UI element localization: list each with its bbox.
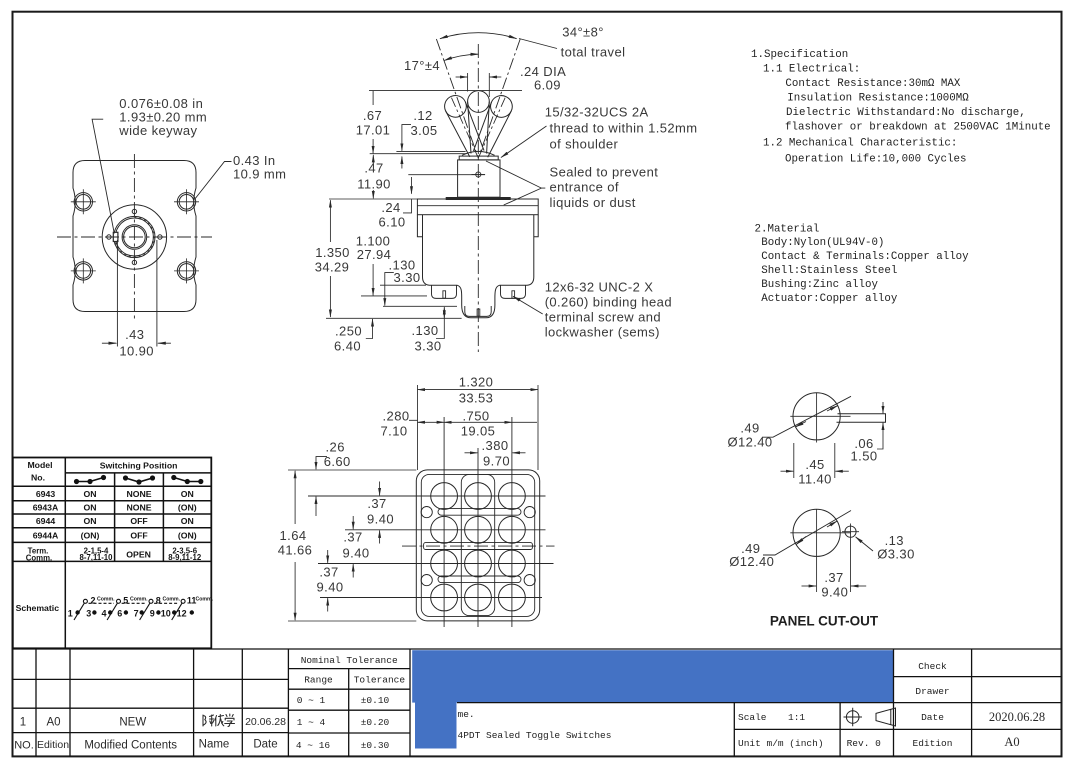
screw slots [443, 291, 446, 298]
lever top extension line [369, 90, 522, 92]
svg-text:(ON): (ON) [178, 530, 197, 540]
schematic 4PDT [74, 599, 185, 620]
svg-text:9.40: 9.40 [343, 546, 370, 561]
bushing top extension lines [370, 152, 467, 154]
svg-text:Nominal Tolerance: Nominal Tolerance [301, 655, 398, 666]
center screw washer [465, 306, 491, 316]
flange side tabs [417, 215, 538, 237]
dia leader bottom circle [763, 511, 851, 556]
svg-text:17°±4: 17°±4 [404, 58, 440, 73]
left section rows [13, 679, 289, 732]
svg-text:12: 12 [177, 608, 187, 618]
svg-text:1.350: 1.350 [315, 245, 350, 260]
svg-text:.37: .37 [367, 496, 386, 511]
body flange [417, 199, 538, 215]
svg-text:Date: Date [921, 712, 944, 723]
projection symbol [844, 708, 896, 726]
svg-text:1 ~ 4: 1 ~ 4 [297, 717, 326, 728]
svg-text:Comm.: Comm. [196, 596, 214, 602]
keyway slot [113, 232, 118, 241]
big blue rectangle [412, 650, 893, 702]
small blue rectangle [415, 697, 457, 749]
svg-text:7: 7 [134, 608, 139, 618]
svg-text:9.40: 9.40 [821, 585, 848, 600]
svg-text:4: 4 [101, 608, 106, 618]
svg-text:Name: Name [199, 739, 230, 751]
schematic contact dots [75, 610, 194, 614]
svg-text:1: 1 [20, 717, 26, 729]
svg-text:.47: .47 [364, 161, 383, 176]
svg-text:Comm.: Comm. [97, 596, 115, 602]
svg-text:Modified Contents: Modified Contents [84, 740, 177, 752]
side view vertical centerline [477, 44, 479, 352]
dim .43/10.90 arrows [102, 342, 117, 344]
dim .37 second [352, 516, 354, 529]
34 degree arc [440, 33, 517, 39]
svg-text:3: 3 [86, 608, 91, 618]
terminal row lines [308, 496, 554, 598]
table outer border [13, 458, 212, 649]
svg-text:2.Material: 2.Material [755, 223, 820, 235]
svg-text:0 ~ 1: 0 ~ 1 [297, 695, 326, 706]
svg-text:Date: Date [253, 739, 277, 751]
cutout bottom crosshairs [790, 509, 851, 592]
svg-text:ON: ON [83, 503, 96, 513]
svg-text:Drawer: Drawer [915, 686, 949, 697]
svg-text:Shell:Stainless Steel: Shell:Stainless Steel [761, 265, 897, 277]
svg-text:Edition: Edition [37, 739, 69, 751]
svg-text:1: 1 [68, 608, 73, 618]
svg-text:me.: me. [458, 709, 475, 720]
svg-text:Actuator:Copper alloy: Actuator:Copper alloy [761, 293, 898, 305]
dim .37/9.40 cutout [802, 585, 817, 587]
svg-text:Scale: Scale [738, 712, 767, 723]
svg-text:of shoulder: of shoulder [550, 137, 619, 152]
svg-text:9.70: 9.70 [483, 454, 510, 469]
svg-text:ON: ON [181, 516, 194, 526]
travel limit line right [478, 39, 520, 158]
svg-text:Ø12.40: Ø12.40 [727, 435, 772, 450]
svg-text:34.29: 34.29 [315, 260, 350, 275]
bottom view inner outline [421, 474, 534, 616]
leader terminal screw note [513, 296, 543, 314]
svg-text:.24: .24 [381, 200, 400, 215]
lever base arc [462, 151, 495, 155]
dim 1.64 extension lines [288, 470, 416, 621]
svg-text:Bushing:Zinc alloy: Bushing:Zinc alloy [761, 279, 878, 291]
svg-text:.49: .49 [740, 421, 759, 436]
svg-text:3.30: 3.30 [394, 270, 421, 285]
mounting hole bottom-right [177, 262, 195, 280]
svg-text:.12: .12 [413, 108, 432, 123]
flange top extension line [329, 198, 417, 200]
left section verticals [36, 649, 288, 756]
actuator hole circles [122, 225, 147, 250]
left screw washer [432, 286, 457, 299]
svg-text:entrance of: entrance of [550, 180, 619, 195]
svg-text:Rev. 0: Rev. 0 [847, 738, 882, 749]
body outline with base pockets [423, 215, 534, 318]
svg-text:NEW: NEW [119, 717, 146, 729]
svg-text:8-7,11-10: 8-7,11-10 [80, 553, 114, 562]
dim .130/3.30 lower [436, 307, 444, 339]
svg-text:Ø3.30: Ø3.30 [877, 547, 914, 562]
boss small circles N S W E [132, 209, 136, 213]
mounting hole top-left [74, 193, 92, 211]
svg-text:.37: .37 [343, 530, 362, 545]
dim .45/11.40 [794, 443, 835, 478]
leader thread note [501, 126, 547, 158]
svg-text:.45: .45 [805, 457, 824, 472]
svg-text:3.05: 3.05 [411, 123, 438, 138]
svg-text:20.06.28: 20.06.28 [245, 716, 286, 728]
svg-text:15/32-32UCS 2A: 15/32-32UCS 2A [545, 105, 649, 120]
svg-text:NO.: NO. [14, 740, 34, 752]
svg-text:Dielectric Withstandard:No dis: Dielectric Withstandard:No discharge, [786, 107, 1026, 119]
svg-text:.37: .37 [319, 565, 338, 580]
dim 1.64 [294, 471, 296, 524]
right screw washer [501, 286, 526, 299]
corner rivet holes [421, 506, 535, 585]
dim .280 [418, 421, 445, 423]
svg-text:wide keyway: wide keyway [118, 123, 197, 138]
pole 4 [181, 599, 185, 603]
svg-text:1.50: 1.50 [851, 449, 878, 464]
svg-text:1.1 Electrical:: 1.1 Electrical: [763, 64, 860, 76]
svg-text:OFF: OFF [130, 530, 147, 540]
svg-text:4PDT Sealed Toggle Switches: 4PDT Sealed Toggle Switches [458, 730, 612, 741]
svg-text:4 ~ 16: 4 ~ 16 [296, 740, 331, 751]
svg-text:6: 6 [117, 608, 122, 618]
mounting hole top-right [177, 193, 195, 211]
dim .12 bracket [402, 125, 411, 144]
toggle icon center [123, 475, 155, 484]
svg-text:.67: .67 [363, 108, 382, 123]
flange centerline horizontal [57, 236, 212, 238]
svg-text:6944A: 6944A [33, 530, 59, 540]
bushing washer band [446, 197, 511, 200]
mounting hole bottom-left [74, 262, 92, 280]
pole 1 [83, 599, 87, 603]
dim 1.350 [329, 200, 331, 242]
svg-text:1.2 Mechanical Characteristic:: 1.2 Mechanical Characteristic: [763, 138, 957, 150]
dim .750 [444, 421, 512, 423]
toggle icon ON-left [74, 475, 106, 484]
svg-text:Tolerance: Tolerance [354, 674, 406, 685]
pole 3 [149, 599, 153, 603]
svg-text:.380: .380 [482, 438, 509, 453]
dim .37 third [327, 550, 329, 563]
svg-text:total travel: total travel [561, 45, 626, 60]
bushing body [458, 160, 500, 197]
dim .24 extension lines [468, 73, 490, 97]
flange centerline vertical [133, 154, 135, 320]
travel limit line left [436, 39, 478, 158]
svg-text:1.64: 1.64 [280, 528, 307, 543]
washer extension line [408, 174, 485, 176]
drafter name CJK strokes [203, 714, 235, 727]
svg-text:Ø12.40: Ø12.40 [729, 554, 774, 569]
svg-text:ON: ON [83, 516, 96, 526]
svg-text:12x6-32 UNC-2 X: 12x6-32 UNC-2 X [545, 280, 654, 295]
seal point circle [476, 172, 481, 177]
total travel leader [519, 39, 557, 49]
svg-text:(ON): (ON) [81, 530, 100, 540]
svg-text:Sealed to prevent: Sealed to prevent [550, 165, 659, 180]
svg-text:3.30: 3.30 [415, 338, 442, 353]
dim .26/6.60 [316, 457, 327, 470]
pole 2 [117, 599, 121, 603]
svg-text:41.66: 41.66 [278, 543, 313, 558]
svg-text:Insulation Resistance:1000MΩ: Insulation Resistance:1000MΩ [787, 93, 969, 105]
dim .24/6.10 [411, 177, 413, 194]
svg-text:6943: 6943 [36, 489, 55, 499]
svg-text:Comm.: Comm. [130, 596, 148, 602]
svg-text:NONE: NONE [126, 489, 151, 499]
dim .250/6.40 [366, 319, 373, 339]
svg-text:Contact & Terminals:Copper all: Contact & Terminals:Copper alloy [761, 251, 969, 263]
leader sealed note [486, 161, 545, 205]
svg-text:.280: .280 [383, 409, 410, 424]
svg-text:OPEN: OPEN [126, 549, 151, 559]
dim .380 [465, 452, 478, 454]
mounting hole crosshairs [71, 189, 199, 283]
anti-rotation hole [845, 526, 856, 537]
svg-text:ON: ON [181, 489, 194, 499]
bottom view centerline [402, 545, 555, 547]
svg-text:.130: .130 [412, 323, 439, 338]
toggle icon ON-right [171, 475, 203, 484]
right rows [457, 677, 1061, 730]
svg-text:lockwasher (sems): lockwasher (sems) [545, 325, 660, 340]
dim .37 first [379, 482, 381, 496]
svg-text:27.94: 27.94 [357, 247, 392, 262]
thread hatch arc [114, 217, 154, 257]
svg-text:OFF: OFF [130, 516, 147, 526]
svg-text:34°±8°: 34°±8° [562, 25, 604, 40]
svg-text:.43: .43 [125, 327, 144, 342]
svg-text:±0.10: ±0.10 [361, 695, 390, 706]
svg-text:10: 10 [161, 608, 171, 618]
keyway slot [837, 414, 886, 422]
bushing thread ring [114, 216, 155, 257]
center boss outer circle [102, 205, 166, 269]
svg-text:Check: Check [918, 661, 947, 672]
svg-text:liquids or dust: liquids or dust [550, 195, 636, 210]
svg-text:8: 8 [156, 596, 161, 606]
svg-text:33.53: 33.53 [459, 391, 494, 406]
hole leader [195, 162, 232, 200]
svg-text:Edition: Edition [913, 738, 953, 749]
dim 1.320 extension lines [418, 385, 539, 470]
leader small hole [856, 537, 873, 551]
middle terminal strip [461, 474, 494, 615]
dim .24 arrows [456, 76, 468, 78]
bushing top plate [459, 156, 498, 160]
cutout bottom circle [793, 509, 840, 556]
svg-text:Body:Nylon(UL94V-0): Body:Nylon(UL94V-0) [761, 237, 884, 249]
svg-text:1.Specification: 1.Specification [751, 49, 848, 61]
middle verticals [734, 649, 971, 756]
center divider band [424, 543, 533, 550]
svg-text:9: 9 [150, 608, 155, 618]
17 degree arc [444, 54, 478, 60]
dim .67 line [372, 91, 374, 153]
svg-text:Operation Life:10,000 Cycles: Operation Life:10,000 Cycles [785, 154, 966, 166]
svg-text:8-9,11-12: 8-9,11-12 [168, 553, 202, 562]
svg-text:1.320: 1.320 [459, 375, 494, 390]
svg-text:19.05: 19.05 [461, 424, 496, 439]
svg-text:6944: 6944 [36, 516, 55, 526]
svg-text:.37: .37 [824, 570, 843, 585]
svg-text:Schematic: Schematic [16, 603, 60, 613]
svg-text:.750: .750 [463, 409, 490, 424]
lever right tilted position [469, 92, 515, 161]
svg-text:7.10: 7.10 [381, 424, 408, 439]
svg-text:terminal screw and: terminal screw and [545, 310, 661, 325]
svg-text:2020.06.28: 2020.06.28 [989, 710, 1045, 724]
svg-text:Comm.: Comm. [26, 553, 52, 562]
cutout top circle [793, 393, 840, 440]
table row lines [13, 473, 212, 562]
svg-text:PANEL CUT-OUT: PANEL CUT-OUT [770, 614, 879, 629]
divider bars [438, 509, 521, 516]
svg-text:5: 5 [123, 596, 128, 606]
svg-text:6.40: 6.40 [334, 339, 361, 354]
svg-text:.26: .26 [326, 440, 345, 455]
schematic terminal numbers [68, 596, 197, 619]
tolerance table [288, 649, 410, 756]
svg-text:17.01: 17.01 [356, 123, 391, 138]
svg-text:ON: ON [83, 489, 96, 499]
svg-text:Switching Position: Switching Position [100, 460, 178, 470]
terminal column lines [444, 417, 512, 627]
schematic Comm labels [97, 596, 214, 602]
svg-text:±0.30: ±0.30 [361, 740, 390, 751]
svg-text:9.40: 9.40 [317, 580, 344, 595]
svg-text:A0: A0 [1004, 735, 1019, 749]
dia leader top circle [762, 396, 851, 437]
svg-text:Contact Resistance:30mΩ MAX: Contact Resistance:30mΩ MAX [785, 78, 960, 90]
lever center position [468, 102, 490, 154]
svg-text:Unit m/m (inch): Unit m/m (inch) [738, 738, 824, 749]
pocket extension lines [326, 285, 462, 318]
svg-text:11.90: 11.90 [357, 177, 391, 192]
title block top line [13, 648, 1062, 650]
svg-text:A0: A0 [46, 717, 60, 729]
svg-text:(ON): (ON) [178, 503, 197, 513]
terminal screws 3x4 [431, 483, 526, 611]
cutout top crosshairs [790, 393, 850, 443]
svg-text:flashover or breakdown at 2500: flashover or breakdown at 2500VAC 1Minut… [785, 122, 1051, 134]
dim .47 [372, 155, 374, 164]
svg-text:±0.20: ±0.20 [361, 717, 390, 728]
dim .06/1.50 [882, 402, 884, 413]
svg-text:thread to within 1.52mm: thread to within 1.52mm [550, 121, 698, 136]
svg-text:9.40: 9.40 [367, 512, 394, 527]
svg-text:Range: Range [304, 674, 333, 685]
lever left tilted position [441, 92, 487, 161]
svg-text:11.40: 11.40 [798, 472, 832, 487]
svg-text:Model: Model [27, 460, 52, 470]
svg-text:2: 2 [90, 596, 95, 606]
svg-text:NONE: NONE [126, 503, 151, 513]
dim 1.320 line [418, 389, 539, 391]
table column lines [65, 458, 163, 649]
dim 1.100 [372, 264, 374, 295]
svg-text:10.9 mm: 10.9 mm [233, 166, 286, 181]
svg-text:10.90: 10.90 [119, 344, 154, 359]
svg-text:6.10: 6.10 [379, 215, 406, 230]
keyway leader [92, 119, 114, 233]
svg-text:(0.260) binding head: (0.260) binding head [545, 295, 672, 310]
svg-text:No.: No. [31, 473, 45, 483]
dim .130/3.30 upper [385, 273, 394, 306]
flange body outline with edge notches [73, 161, 196, 312]
svg-text:6.09: 6.09 [534, 78, 561, 93]
svg-text:6.60: 6.60 [324, 454, 351, 469]
svg-text:Comm.: Comm. [163, 596, 181, 602]
svg-text:6943A: 6943A [33, 503, 59, 513]
svg-text:.250: .250 [335, 324, 362, 339]
svg-text:1:1: 1:1 [788, 712, 805, 723]
bottom view outer outline [416, 470, 539, 621]
dim .43/10.90 extension lines [117, 240, 156, 347]
